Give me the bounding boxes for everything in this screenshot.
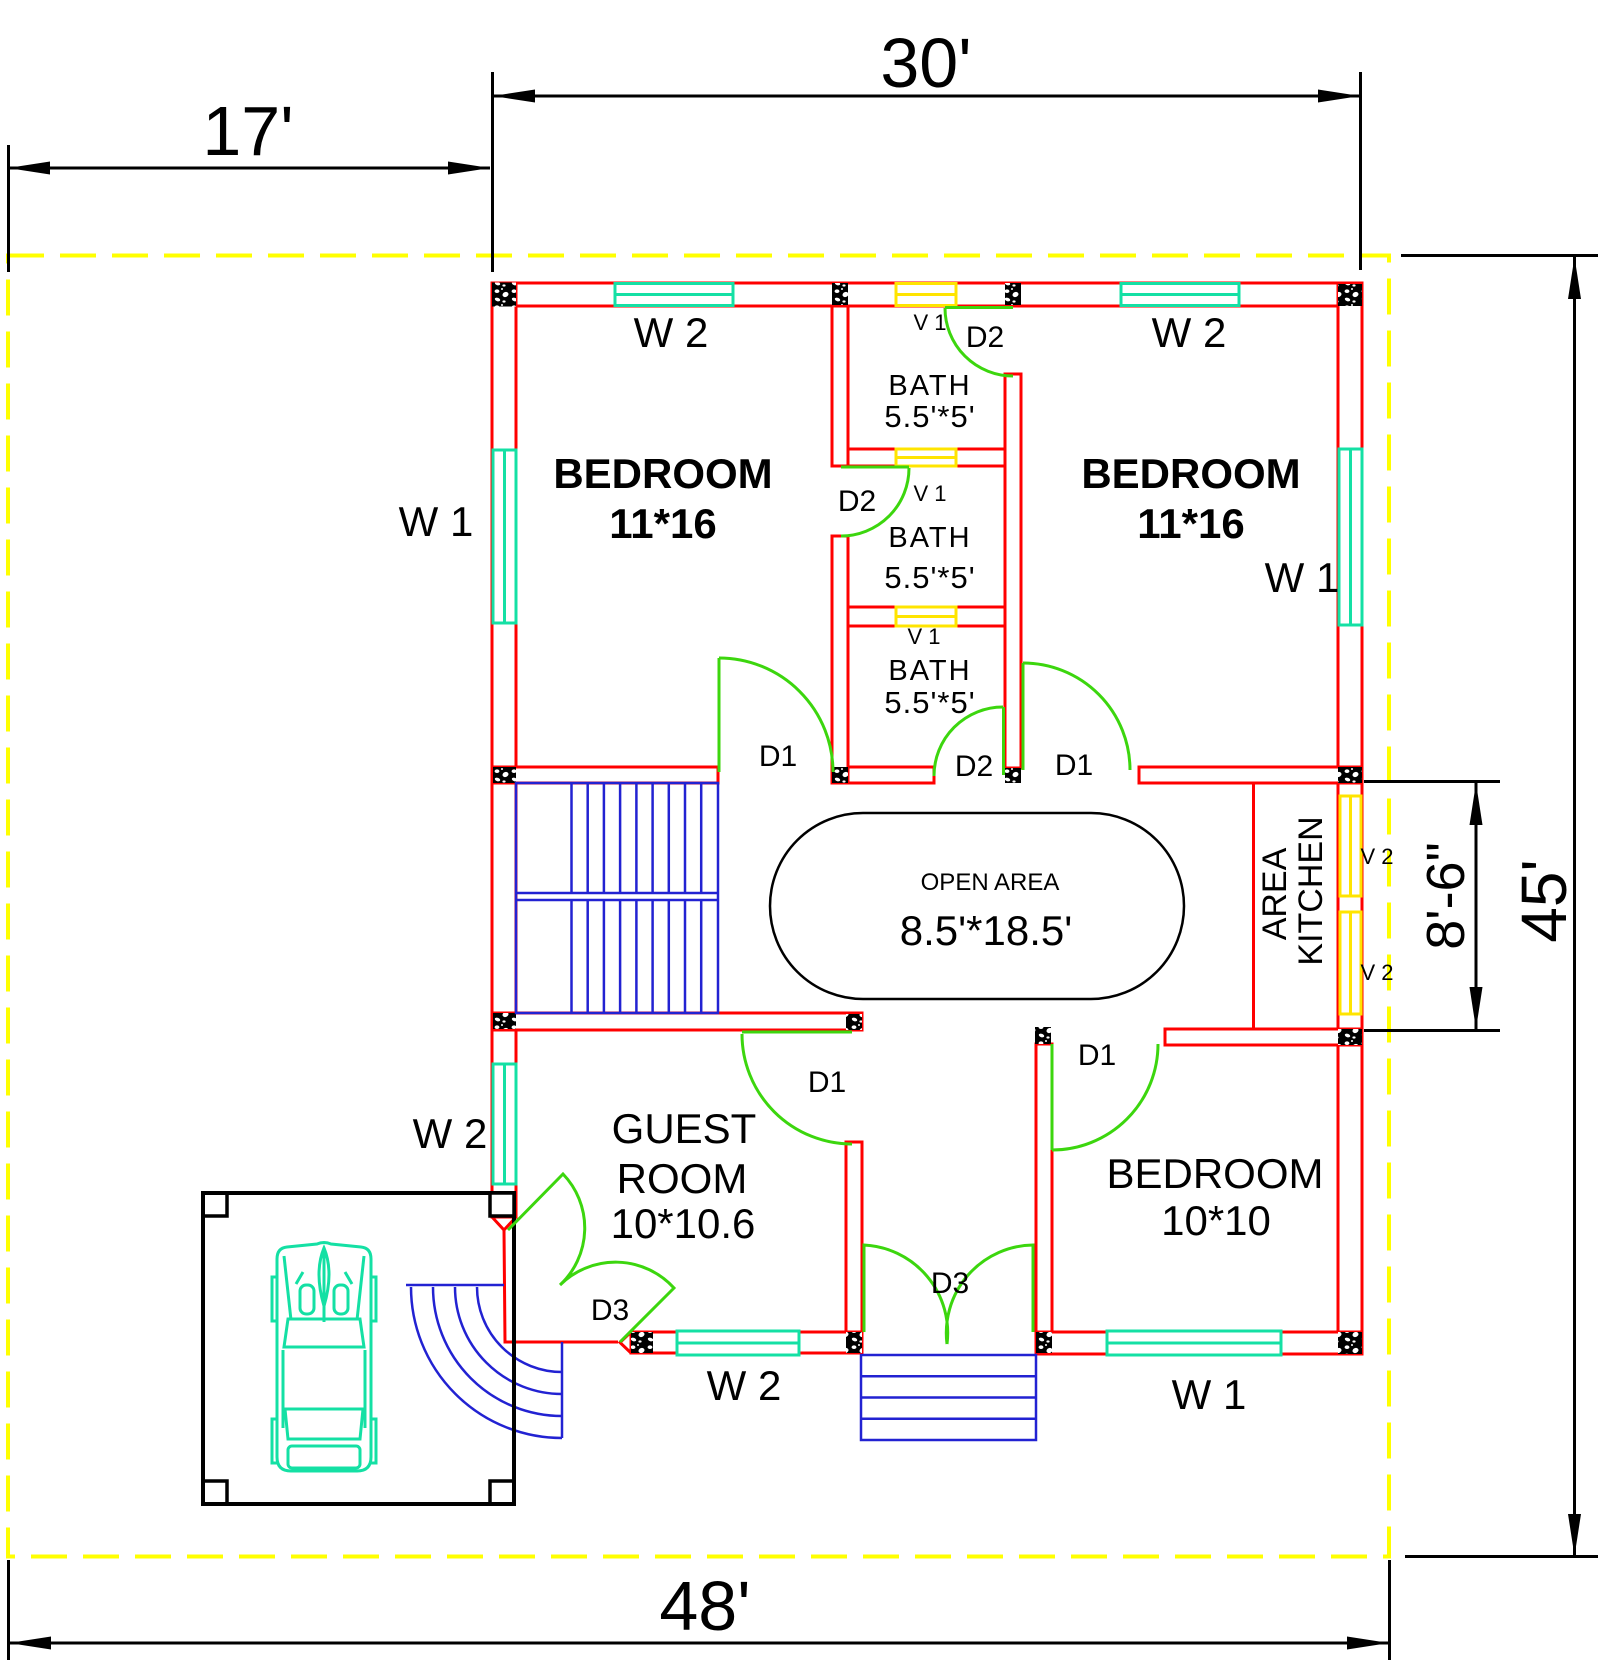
entry corner threshold (504, 1230, 618, 1342)
svg-text:BATH: BATH (888, 522, 971, 554)
corner block lower-left (493, 1013, 516, 1029)
bath2 bottom wall (848, 607, 1005, 626)
door D1 bedroom2 leaf (1022, 663, 1025, 770)
corner block bath-right bottom (1005, 768, 1021, 783)
bottom wall guest pointed end (620, 1332, 631, 1353)
svg-text:10*10.6: 10*10.6 (611, 1200, 756, 1247)
window W2 top-right (1121, 284, 1239, 306)
window W1 right (1339, 449, 1362, 625)
corner block bath-left bottom (832, 767, 848, 783)
left wall pointed end (492, 1217, 516, 1230)
svg-text:D1: D1 (759, 740, 797, 773)
left wall (492, 283, 516, 1217)
door D1 bedroom3 arc (1052, 1044, 1158, 1150)
dim 17ft/30ft shared extension line (491, 72, 494, 272)
dim 30ft extension line right (1359, 72, 1362, 270)
svg-text:D3: D3 (931, 1267, 969, 1300)
svg-text:D1: D1 (1078, 1039, 1116, 1072)
guest room right wall (846, 1142, 862, 1332)
corner block bottom-right (1338, 1332, 1362, 1354)
bath1 bottom wall (848, 449, 1005, 466)
corner block guest wall top (846, 1014, 862, 1030)
svg-text:30': 30' (880, 24, 971, 102)
svg-text:10*10: 10*10 (1161, 1197, 1271, 1244)
curved porch steps top line (406, 1284, 504, 1287)
door D2 bath2 leaf (841, 466, 909, 469)
svg-text:BEDROOM: BEDROOM (1106, 1150, 1323, 1197)
svg-text:45': 45' (1508, 859, 1580, 942)
curved porch steps right line (561, 1342, 564, 1438)
dim 48ft extension line right (1388, 1560, 1391, 1660)
svg-text:48': 48' (659, 1567, 750, 1645)
window W2 bottom (677, 1331, 799, 1355)
dim 8ft6 line (1475, 783, 1478, 1029)
svg-text:W 1: W 1 (1265, 554, 1340, 601)
door D1 bedroom1 arc (719, 658, 833, 772)
window W2 guest left (493, 1064, 516, 1184)
svg-text:GUEST: GUEST (612, 1105, 757, 1152)
bath left wall lower (832, 536, 848, 783)
svg-text:V 1: V 1 (913, 310, 946, 335)
svg-text:W 2: W 2 (413, 1110, 488, 1157)
svg-text:D2: D2 (838, 485, 876, 518)
corner block mid-right (1338, 767, 1362, 783)
svg-text:BEDROOM: BEDROOM (1081, 450, 1300, 497)
dim 30ft line (493, 95, 1360, 98)
right wall (1338, 284, 1362, 1354)
stairs lower flight treads (572, 900, 702, 1013)
mid wall bath bottom (832, 767, 934, 783)
bath right wall (1005, 374, 1021, 768)
svg-text:V 2: V 2 (1360, 960, 1393, 985)
door D3 steps left leaf (864, 1245, 948, 1344)
lower wall open-area bottom (492, 1013, 862, 1030)
svg-text:5.5'*5': 5.5'*5' (884, 399, 975, 434)
door D1 bedroom1 leaf (718, 658, 721, 772)
corner block kitchen bottom-right (1338, 1029, 1362, 1045)
dim 8ft6 arrow bottom (1470, 987, 1483, 1029)
dim 17ft line (8, 167, 490, 170)
corner block bath-right top (1005, 283, 1021, 305)
dim 45ft extension line top (1401, 254, 1598, 257)
stairs mid landing divider (516, 892, 718, 895)
window W2 top-left (615, 284, 733, 306)
stairs upper flight treads (572, 783, 702, 893)
door D1 bedroom2 arc (1023, 663, 1130, 770)
door D3 entry double leaf (508, 1174, 674, 1342)
window V2 upper (1340, 796, 1361, 896)
mid wall bedroom1 bottom (492, 767, 718, 783)
svg-text:BATH: BATH (888, 370, 971, 402)
door D1 guest leaf (742, 1031, 852, 1034)
kitchen partition line (1252, 783, 1255, 1029)
curved porch steps arcs (411, 1287, 562, 1438)
svg-text:D2: D2 (955, 750, 993, 783)
stairs outline (516, 783, 718, 1013)
corner block bottom steps-left (846, 1332, 862, 1353)
door D2 bath3 leaf (1002, 707, 1005, 775)
door D2 bath1 arc (945, 308, 1013, 376)
svg-text:V 1: V 1 (907, 624, 940, 649)
corner block bedroom3 wall top (1035, 1027, 1051, 1044)
dim 48ft line (9, 1642, 1389, 1645)
entry steps treads (861, 1375, 1036, 1378)
door D2 bath2 arc (841, 468, 909, 536)
svg-text:8'-6": 8'-6" (1416, 842, 1476, 950)
dim 8ft6 extension line top (1364, 780, 1500, 783)
door D2 bath3 arc (934, 707, 1003, 776)
svg-text:ROOM: ROOM (617, 1155, 748, 1202)
door D1 bedroom3 leaf (1051, 1044, 1054, 1150)
dim 30ft arrow right (1318, 90, 1360, 103)
svg-text:W 1: W 1 (1172, 1371, 1247, 1418)
window V1 top (896, 284, 956, 306)
svg-text:11*16: 11*16 (1137, 500, 1244, 547)
window V1 bath2 (896, 607, 956, 626)
dim 48ft extension line left (7, 1560, 10, 1660)
bottom wall guest side (631, 1332, 862, 1353)
top wall (492, 283, 1362, 306)
garage corner mark top-left (203, 1193, 227, 1216)
svg-text:D1: D1 (808, 1066, 846, 1099)
open area oval (770, 813, 1184, 999)
svg-text:AREA: AREA (1256, 847, 1294, 940)
door D3 steps right leaf (946, 1245, 1033, 1344)
svg-text:17': 17' (202, 92, 293, 170)
svg-text:D2: D2 (966, 321, 1004, 354)
mid wall right segment (1139, 767, 1362, 783)
svg-text:11*16: 11*16 (609, 500, 716, 547)
svg-text:V 2: V 2 (1360, 844, 1393, 869)
dim 30ft arrow left (493, 90, 535, 103)
dim 8ft6 extension line bottom (1364, 1029, 1500, 1032)
corner block bottom steps-right (1036, 1332, 1052, 1353)
garage corner mark bottom-left (203, 1481, 227, 1504)
bath left wall upper (832, 306, 848, 466)
garage corner mark top-right (490, 1193, 514, 1216)
property boundary (yellow dashed) (8, 256, 1389, 1557)
svg-text:BEDROOM: BEDROOM (553, 450, 772, 497)
svg-text:V 1: V 1 (913, 481, 946, 506)
window V2 lower (1340, 912, 1361, 1014)
svg-text:D1: D1 (1055, 749, 1093, 782)
svg-text:5.5'*5': 5.5'*5' (884, 560, 975, 595)
svg-text:W 1: W 1 (399, 498, 474, 545)
dim 48ft arrow left (9, 1637, 51, 1650)
dim 8ft6 arrow top (1470, 783, 1483, 825)
window W1 left (493, 450, 516, 623)
window W1 bottom (1107, 1331, 1281, 1355)
corner block bath-left top (832, 283, 848, 305)
door D1 guest arc (742, 1034, 852, 1144)
dim 45ft line (1573, 257, 1576, 1556)
car in garage (272, 1243, 376, 1472)
bottom wall bedroom3 side (1036, 1332, 1362, 1354)
door D2 bath1 leaf (945, 306, 1013, 309)
dim 17ft arrow right (448, 162, 490, 175)
bedroom3 left wall (1036, 1044, 1052, 1332)
entry steps rectangle (861, 1355, 1036, 1440)
svg-text:W 2: W 2 (634, 309, 709, 356)
garage outline (203, 1193, 514, 1504)
garage corner mark bottom-right (490, 1481, 514, 1504)
svg-text:OPEN AREA: OPEN AREA (921, 869, 1060, 896)
svg-text:W 2: W 2 (1152, 309, 1227, 356)
dim 17ft extension line left (7, 145, 10, 272)
corner block top-left (492, 283, 516, 307)
dim 17ft arrow left (8, 162, 50, 175)
dim 45ft extension line bottom (1405, 1555, 1598, 1558)
svg-text:5.5'*5': 5.5'*5' (884, 685, 975, 720)
svg-text:8.5'*18.5': 8.5'*18.5' (900, 907, 1073, 954)
svg-text:BATH: BATH (888, 655, 971, 687)
kitchen bottom wall (1165, 1029, 1362, 1045)
corner block bottom wall left (631, 1332, 653, 1353)
svg-text:D3: D3 (591, 1294, 629, 1327)
window V1 bath1 (896, 449, 956, 466)
svg-text:W 2: W 2 (707, 1362, 782, 1409)
dim 48ft arrow right (1347, 1637, 1389, 1650)
svg-text:KITCHEN: KITCHEN (1292, 816, 1330, 965)
dim 45ft arrow top (1568, 257, 1581, 299)
corner block top-right (1338, 284, 1362, 306)
corner block mid-left (493, 767, 516, 783)
dim 45ft arrow bottom (1568, 1514, 1581, 1556)
